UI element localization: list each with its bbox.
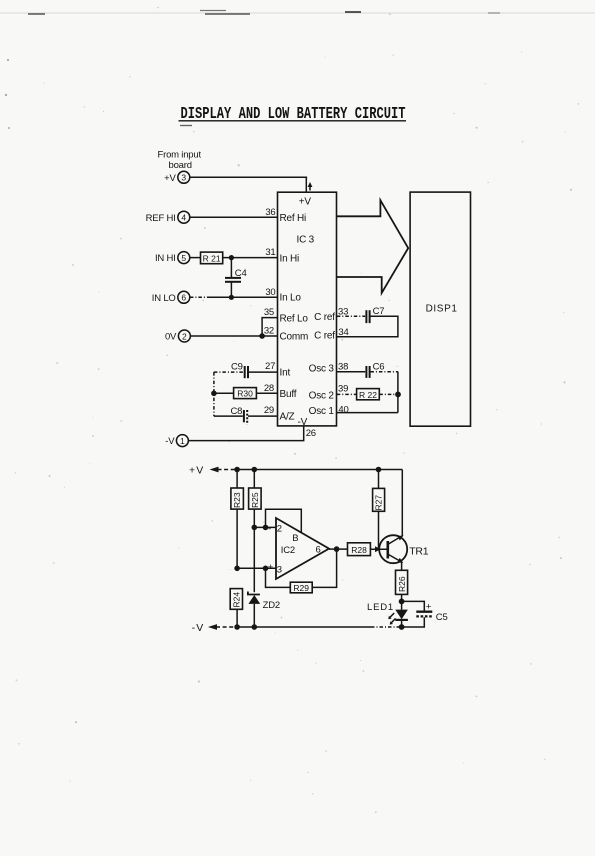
- svg-text:6: 6: [316, 545, 321, 556]
- svg-text:R30: R30: [237, 389, 253, 399]
- capacitor C6 (pin 38): [337, 361, 398, 378]
- svg-text:C6: C6: [373, 361, 385, 372]
- svg-text:R24: R24: [231, 592, 241, 608]
- junction dot: [259, 333, 265, 339]
- svg-text:0V: 0V: [165, 332, 177, 343]
- pin 35 jog wire: [262, 318, 277, 336]
- up arrow tick on +V pin: [308, 182, 313, 191]
- svg-text:39: 39: [338, 384, 348, 395]
- svg-text:+V: +V: [164, 173, 176, 184]
- svg-text:A/Z: A/Z: [280, 412, 295, 423]
- base arrowhead / junction: [375, 546, 381, 552]
- svg-text:3: 3: [181, 173, 186, 183]
- op-amp output wire: [329, 546, 348, 552]
- svg-text:2: 2: [277, 524, 282, 535]
- svg-text:Comm: Comm: [280, 332, 309, 343]
- junction dot: [229, 295, 234, 300]
- svg-text:IC2: IC2: [281, 545, 295, 556]
- transistor TR1: [379, 535, 429, 563]
- node above LED: [399, 599, 405, 605]
- capacitor C9: [214, 362, 278, 379]
- wire 4 to pin 36: [190, 216, 278, 218]
- svg-text:IN LO: IN LO: [152, 293, 176, 304]
- resistor R29 feedback loop: [266, 549, 337, 593]
- capacitor C8: [214, 406, 278, 425]
- zener diode ZD2: [248, 592, 280, 628]
- svg-text:Ref Hi: Ref Hi: [280, 213, 307, 224]
- wire 1 to pin 26: [189, 426, 304, 441]
- svg-text:33: 33: [338, 307, 348, 318]
- svg-text:B: B: [292, 533, 298, 544]
- svg-text:26: 26: [306, 428, 316, 439]
- svg-text:R 21: R 21: [203, 253, 221, 263]
- svg-text:29: 29: [264, 405, 274, 416]
- svg-text:36: 36: [265, 207, 275, 218]
- resistor R22 (pin 39): [337, 389, 398, 400]
- resistor R30: [214, 388, 278, 399]
- svg-text:Osc 2: Osc 2: [309, 391, 335, 402]
- +V rail arrow: [210, 467, 219, 473]
- svg-text:Ref Lo: Ref Lo: [280, 313, 309, 324]
- capacitor C7 loop (pins 33/34): [337, 306, 398, 337]
- svg-text:2: 2: [182, 331, 187, 341]
- resistor R24: [230, 589, 242, 627]
- connector IN HI (5): [155, 252, 190, 265]
- svg-text:-: -: [268, 524, 271, 535]
- svg-text:From input: From input: [158, 150, 202, 161]
- resistor R28: [348, 543, 388, 556]
- svg-text:C4: C4: [235, 268, 247, 279]
- svg-text:3: 3: [277, 565, 282, 576]
- connector REF HI (4): [146, 211, 190, 224]
- page top scan marks: [0, 11, 595, 130]
- svg-text:-V: -V: [298, 417, 308, 428]
- svg-text:4: 4: [181, 213, 186, 223]
- svg-text:31: 31: [265, 247, 275, 258]
- svg-text:Buff: Buff: [280, 389, 297, 400]
- title: DISPLAY AND LOW BATTERY CIRCUIT: [179, 106, 407, 124]
- wire +V(3) to IC +V pin: [190, 177, 306, 192]
- svg-text:C ref: C ref: [314, 312, 335, 323]
- svg-text:TR1: TR1: [409, 545, 429, 557]
- svg-text:IN HI: IN HI: [155, 253, 176, 264]
- svg-text:board: board: [169, 160, 192, 171]
- svg-text:+: +: [426, 601, 432, 612]
- svg-text:LED1: LED1: [367, 602, 394, 613]
- svg-text:34: 34: [338, 327, 348, 338]
- svg-text:R23: R23: [232, 492, 242, 508]
- -V rail arrow: [208, 624, 217, 630]
- connector IN LO (6): [152, 291, 190, 304]
- svg-text:-V: -V: [192, 622, 205, 634]
- svg-text:R 22: R 22: [359, 390, 377, 400]
- svg-text:IC 3: IC 3: [297, 235, 315, 246]
- display bus arrow: [337, 200, 408, 293]
- wire 5 to R21: [190, 257, 201, 259]
- svg-text:38: 38: [338, 361, 348, 372]
- svg-text:In Hi: In Hi: [280, 254, 300, 265]
- svg-text:R27: R27: [374, 495, 384, 511]
- svg-text:35: 35: [264, 307, 274, 318]
- svg-text:DISP1: DISP1: [426, 303, 458, 314]
- svg-text:32: 32: [264, 326, 274, 337]
- -V rail wire: [216, 624, 405, 630]
- wire non-inverting input (pin 3): [234, 566, 276, 572]
- +V rail wire: [218, 467, 403, 473]
- svg-text:C5: C5: [436, 612, 448, 623]
- svg-text:+: +: [268, 562, 274, 573]
- collector wire to +V rail: [401, 470, 403, 536]
- display DISP1 box: [410, 192, 470, 426]
- svg-text:Osc 1: Osc 1: [309, 406, 335, 417]
- junction dot: [229, 255, 234, 260]
- C9 R30 C8 left bus: [211, 372, 217, 416]
- connector -V (1): [165, 435, 188, 448]
- svg-text:R29: R29: [293, 583, 309, 593]
- svg-text:-V: -V: [165, 436, 175, 447]
- resistor R23: [231, 470, 244, 569]
- wire inverting input (pin 2): [252, 525, 277, 531]
- svg-text:R25: R25: [250, 492, 260, 508]
- resistor R27: [373, 470, 385, 550]
- svg-text:C7: C7: [373, 306, 385, 317]
- svg-text:27: 27: [265, 361, 275, 372]
- wire R21 to pin 31: [223, 257, 278, 259]
- LED LED1: [367, 601, 408, 627]
- pin 40 wire: [337, 412, 398, 414]
- IC U1 (IC 3) body: [278, 192, 337, 428]
- capacitor C4: [225, 258, 247, 298]
- svg-text:5: 5: [181, 253, 186, 263]
- wire 6 to pin 30 (dash-dot start): [190, 296, 208, 298]
- svg-text:+V: +V: [189, 465, 205, 477]
- svg-text:6: 6: [181, 293, 186, 303]
- svg-text:28: 28: [264, 383, 274, 394]
- svg-text:Int: Int: [280, 368, 291, 379]
- svg-text:ZD2: ZD2: [263, 600, 280, 611]
- svg-text:C8: C8: [231, 406, 243, 417]
- svg-text:REF HI: REF HI: [146, 213, 176, 224]
- op-amp U2 (IC2): [268, 518, 329, 579]
- svg-text:40: 40: [338, 404, 348, 415]
- resistor R21: [201, 252, 223, 264]
- node: From input board text: [158, 150, 202, 172]
- connector 0V (2): [165, 330, 190, 343]
- svg-text:C ref: C ref: [314, 331, 335, 342]
- svg-text:C9: C9: [231, 362, 243, 373]
- wire 2 to pin 32: [191, 335, 278, 337]
- svg-text:Osc 3: Osc 3: [309, 364, 335, 375]
- oscillator net vertical + junction: [395, 372, 401, 413]
- resistor R25: [249, 470, 262, 593]
- svg-text:1: 1: [180, 436, 185, 446]
- svg-text:R26: R26: [397, 576, 407, 592]
- capacitor C5: [402, 601, 448, 627]
- svg-text:+V: +V: [299, 197, 312, 208]
- svg-text:30: 30: [265, 287, 275, 298]
- svg-text:R28: R28: [351, 545, 367, 555]
- resistor R26: [396, 563, 408, 602]
- svg-text:In Lo: In Lo: [280, 293, 302, 304]
- connector +V (3): [164, 171, 190, 184]
- feedback wire over op-amp: [266, 509, 302, 532]
